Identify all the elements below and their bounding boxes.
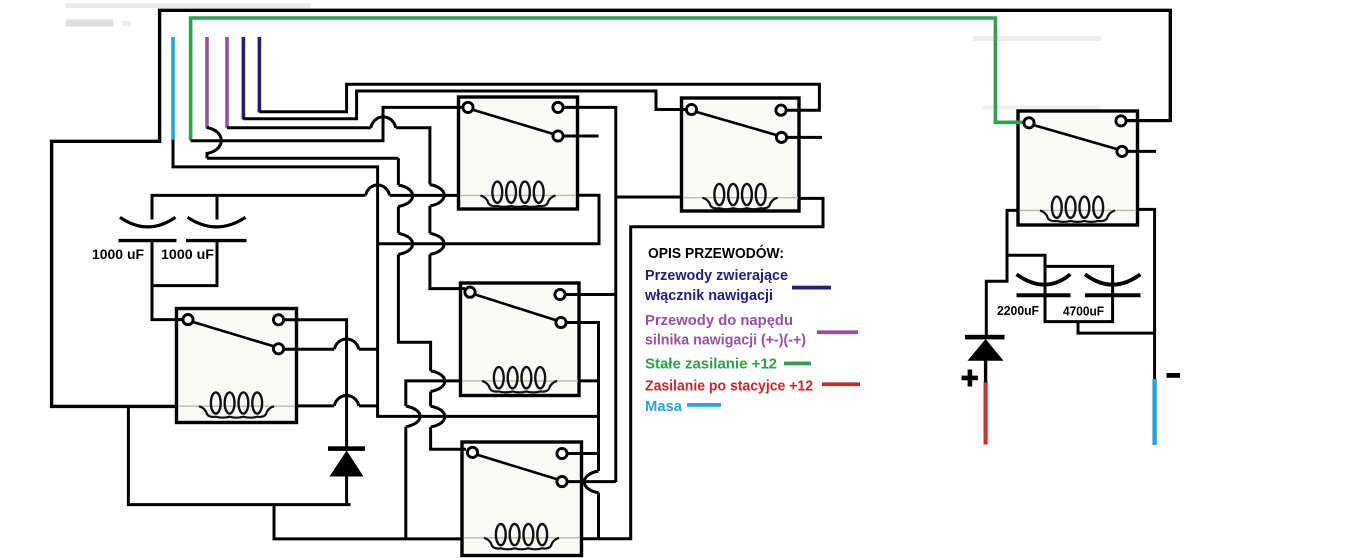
relay K3 pin 3 [273, 344, 283, 354]
node: plus terminal label [962, 370, 979, 387]
relay K4 switch arm [474, 294, 556, 320]
legend swatch red [822, 382, 860, 386]
wire hop: purple1 over relay K4 coil line y381 [431, 371, 445, 392]
wire: relay K4 coil-right stub [578, 379, 599, 382]
relay K1 coil [481, 182, 556, 207]
wire: navy switch wire 1 stub [242, 37, 246, 120]
relay K2 pin 2 [776, 105, 786, 115]
wire: purple motor wire 1 stub [205, 37, 209, 129]
svg-text:Masa: Masa [645, 398, 683, 415]
wire: frame right drop to relay K6 top-right pin [1126, 119, 1170, 122]
wire: green-to-relay-K1 link (vertical x383) [191, 107, 464, 140]
svg-text:Przewody zwierające: Przewody zwierające [645, 267, 788, 284]
relay K6 pin 2 [1116, 116, 1126, 126]
svg-text:Stałe zasilanie +12: Stałe zasilanie +12 [645, 356, 777, 373]
wire hop: purple1 over y244 line [398, 233, 412, 254]
relay K3 pin 1 [183, 315, 193, 325]
wire hop: K3 coil-right line over diode column [334, 395, 359, 405]
wire: y244 line from masa column to relay K1 coil-right [378, 195, 599, 244]
relay K4 pin 3 [556, 317, 566, 327]
relay K6 pin 3 [1117, 146, 1127, 156]
wire: link to right cap 2 top [1045, 266, 1113, 295]
diode D1 (flyback, left) [328, 446, 365, 504]
relay K1 pin 3 [553, 131, 563, 141]
wire: right caps bottom U [1045, 295, 1113, 322]
wire: masa cyan drop at minus terminal [1152, 379, 1156, 445]
wire: branch to right cap 1 top [1007, 255, 1045, 295]
capacitor C1 1000uF plates [119, 217, 177, 240]
relay K3 coil [199, 392, 274, 417]
relay K4 (middle) body [461, 283, 580, 396]
wire: capacitor top rail y195.5 to relay K1 coil [152, 195, 460, 219]
relay K3 pin 2 [273, 315, 283, 325]
wire: relay K5 second pin stub to spine x615.8 [568, 480, 616, 483]
relay K6 switch arm [1033, 125, 1117, 149]
wire: relay K6 second pin open stub [1127, 150, 1156, 153]
wire: green stale zasilanie +12 (to relay K6) [191, 18, 1023, 141]
wire: caps U to minus column [1078, 322, 1155, 334]
relay K2 pin 3 [776, 132, 786, 142]
wire: relay K6 coil-right down to minus [1136, 209, 1155, 379]
wire: purple2 net to relay K4 top-left pin [227, 128, 465, 289]
svg-text:Przewody do napędu: Przewody do napędu [645, 312, 793, 329]
wire: purple1 net horizontal to middle column [207, 157, 398, 160]
relay K2 switch arm [696, 112, 777, 136]
wire hop: purple2 over coil rail y195.5 [430, 185, 444, 207]
wire hop: purple1 over y416.5 line [431, 406, 445, 427]
wire: capacitor bottom join to relay K3 top-left pin [152, 241, 217, 320]
relay K4 pin 2 [555, 289, 565, 299]
relay K6 coil [1040, 197, 1115, 222]
relay K6 (right) body [1018, 111, 1138, 225]
node: minus terminal label [1167, 373, 1181, 378]
wire: outer frame top/left (stale zasilanie route) [52, 10, 1171, 406]
wire: relay K4 second pin down to relay K5 top-right / bottom U [566, 323, 599, 539]
wire: relay K5 coil-right up around legend to relay K2 coil-right [581, 198, 824, 538]
wire: branch down to bottom coil rail y539 [274, 505, 464, 539]
relay K2 coil [703, 184, 778, 209]
wire: masa net - cyan continuation down/right then to relay K4/K5 column [173, 140, 599, 417]
relay K5 switch arm [477, 455, 558, 480]
wire: red +12 drop at plus terminal [983, 382, 987, 445]
wire: relay K4 coil-left drop to bottom rail [406, 381, 462, 539]
relay K5 coil [484, 524, 559, 549]
relay K3 switch arm [192, 322, 274, 347]
relay K6 pin 1 [1024, 118, 1034, 128]
svg-text:2200uF: 2200uF [997, 303, 1039, 318]
relay K5 pin 1 [467, 447, 477, 457]
svg-text:1000 uF: 1000 uF [92, 247, 144, 262]
wire hop: K3 second pin line over diode column [334, 339, 359, 349]
wire: navy1 net to relay K2 top-left pin [243, 91, 687, 119]
wire: relay K5 top-right pin stub to x598.5 [567, 452, 599, 455]
wire: purple motor wire 2 stub [225, 37, 229, 128]
wire hop: purple1 over coil rail y195.5 [398, 185, 412, 207]
scanner smudge top-left [66, 4, 1101, 110]
wire hop: rail over masa vertical x377.6 [366, 185, 390, 195]
diode D2 (right, at plus terminal) [965, 335, 1005, 383]
svg-text:silnika nawigacji (+-)(-+): silnika nawigacji (+-)(-+) [645, 332, 806, 349]
capacitor C2 1000uF plates [186, 217, 247, 240]
wire: cap2 top lead [216, 195, 219, 219]
relay K4 coil [482, 367, 557, 392]
capacitor C4 4700uF plates [1085, 274, 1141, 295]
wire hop: K4 coil-left drop over y416.5 line [406, 406, 420, 427]
wire: relay K1 top-right pin to center spine x615.8 [563, 107, 616, 482]
svg-text:włącznik nawigacji: włącznik nawigacji [644, 287, 773, 304]
relay K2 pin 1 [686, 104, 696, 114]
relay K1 pin 1 [463, 102, 473, 112]
wire: masa cyan stub top-left [171, 37, 175, 142]
legend swatch navy [792, 286, 831, 290]
wire: spine to relay K2 coil-left [616, 196, 683, 199]
svg-text:OPIS PRZEWODÓW:: OPIS PRZEWODÓW: [648, 244, 784, 262]
relay K5 (bottom middle) body [462, 442, 582, 556]
relay K1 (top middle) body [459, 97, 578, 209]
relay K5 pin 3 [557, 477, 567, 487]
wire: relay K4 top-right pin to spine [565, 293, 616, 296]
wire: relay K3 top-right pin to flyback diode column [283, 320, 347, 448]
svg-text:1000 uF: 1000 uF [161, 247, 214, 262]
relay K3 (left) body [177, 309, 297, 423]
wire: navy switch wire 2 stub [258, 37, 262, 113]
wire hop: purple2 over y244 line [430, 233, 444, 254]
wire: purple1 vertical with hops, jog, to relay K5 top-left pin [398, 158, 466, 449]
wire hop: x598.5 over relay K5 second-pin stub (left bulge) [584, 471, 598, 493]
wire: relay K6 coil-left down to caps/diode [986, 210, 1019, 336]
relay K2 (top right-middle) body [682, 98, 800, 211]
svg-text:4700uF: 4700uF [1063, 303, 1104, 318]
relay K4 pin 1 [465, 287, 475, 297]
capacitor C3 2200uF plates [1017, 274, 1071, 295]
wire: relay K3 coil-right to masa column (hop over x346.6) [297, 404, 378, 407]
wire: relay K2 second pin open stub [787, 136, 823, 139]
relay K1 switch arm [472, 110, 553, 134]
wire: bottom-left return (diode bottom, to relay K5 coil rail) [128, 406, 350, 504]
legend swatch purple [817, 330, 858, 334]
wire hop: purple2 line over vertical x383 [371, 117, 396, 128]
legend swatch green [784, 362, 811, 366]
wire: navy2 net to relay K2 top-right pin [259, 84, 819, 112]
wire: relay K1 second pin open stub [563, 135, 599, 138]
relay K5 pin 2 [557, 448, 567, 458]
svg-text:Zasilanie po stacyjce +12: Zasilanie po stacyjce +12 [645, 378, 813, 395]
wire: relay K3 second pin to masa column (hop over x346.6) [283, 348, 378, 351]
legend swatch cyan [687, 403, 721, 407]
relay K1 pin 2 [553, 102, 563, 112]
wire: purple1 black hop arc (around green line) [207, 128, 221, 159]
